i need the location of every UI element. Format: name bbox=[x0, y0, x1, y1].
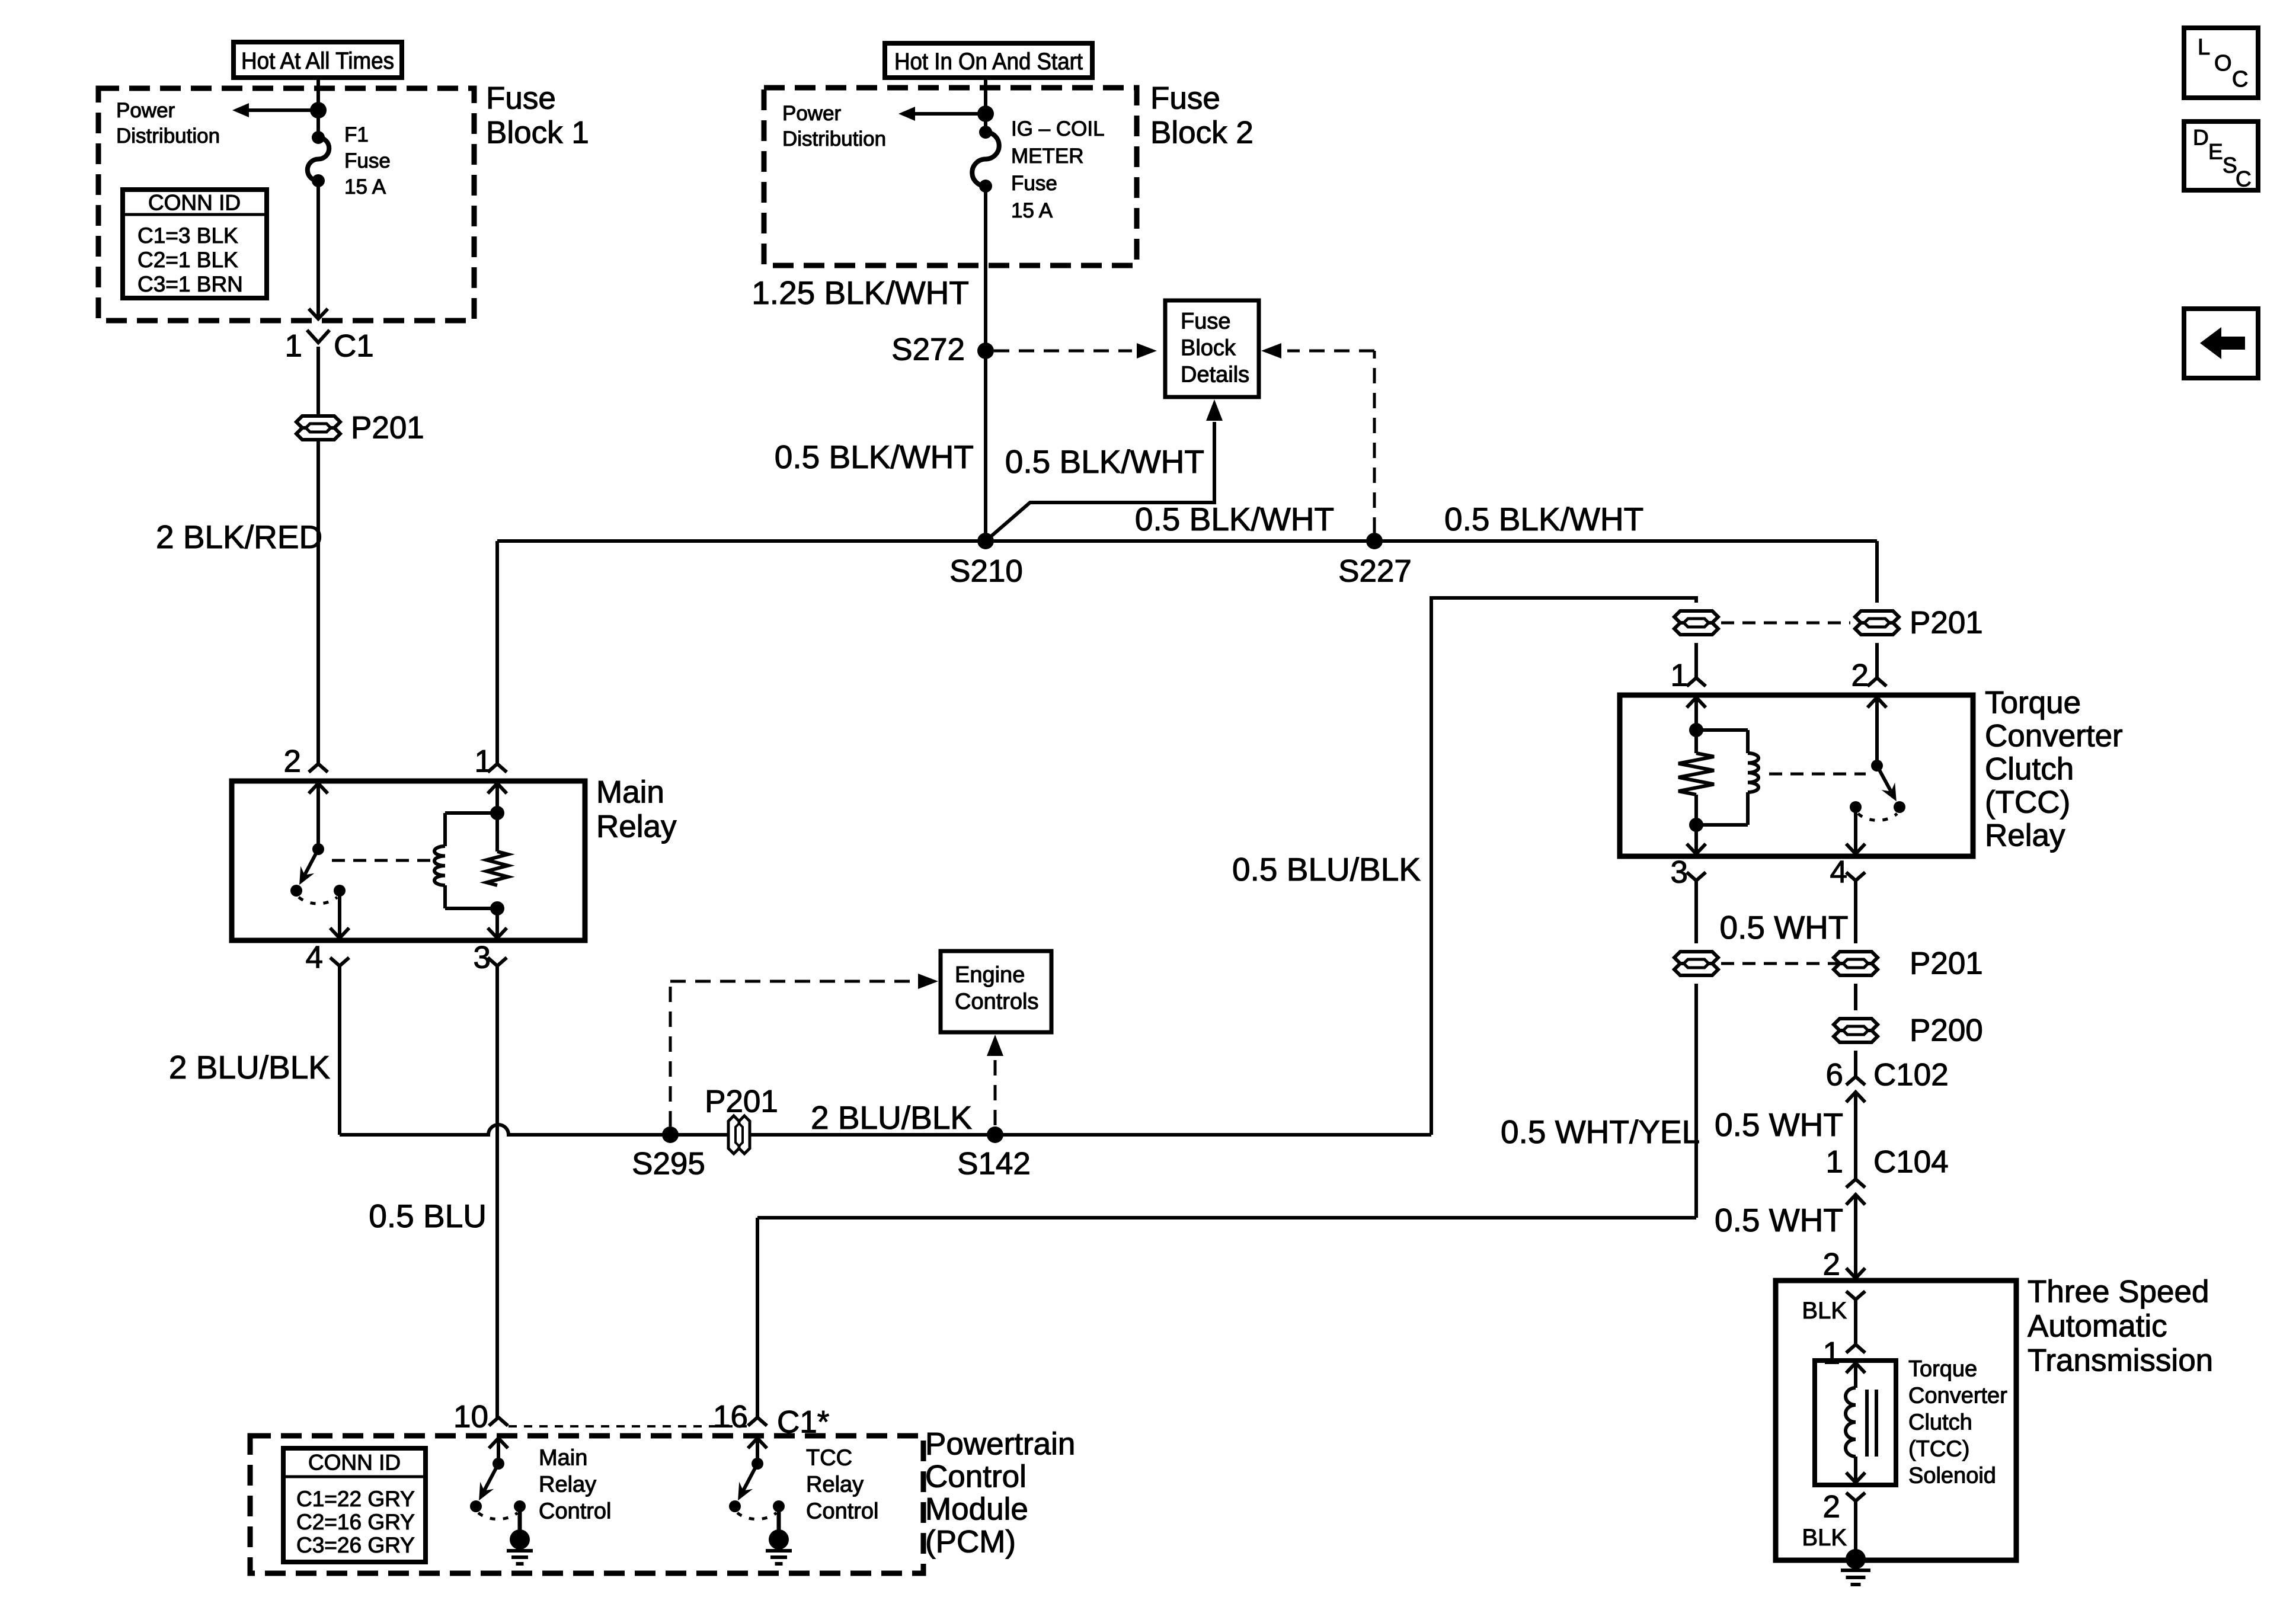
svg-text:15 A: 15 A bbox=[1011, 199, 1053, 222]
wire fuse-block-2 feed bbox=[984, 78, 987, 114]
node coil top junction (Main Relay) bbox=[490, 806, 504, 820]
svg-text:Converter: Converter bbox=[1908, 1384, 2007, 1409]
PCM TCC relay control contact bbox=[729, 1500, 741, 1512]
svg-text:P201: P201 bbox=[351, 411, 424, 446]
svg-text:3: 3 bbox=[474, 940, 491, 975]
legend box back-arrow bbox=[2184, 309, 2258, 378]
svg-text:Block 2: Block 2 bbox=[1150, 116, 1253, 151]
svg-text:S295: S295 bbox=[632, 1147, 705, 1182]
svg-text:CONN ID: CONN ID bbox=[308, 1451, 401, 1475]
resistor in Main Relay bbox=[487, 852, 508, 885]
solenoid core bars bbox=[1865, 1390, 1869, 1457]
relay box Torque Converter Clutch Relay bbox=[1620, 695, 1973, 856]
svg-text:2: 2 bbox=[1823, 1490, 1840, 1525]
main relay wire contact to pin 4 bbox=[338, 891, 341, 938]
connector P201 (TCC pin 4) bbox=[1834, 952, 1878, 964]
pin 16 of PCM bbox=[748, 1417, 767, 1426]
wire to IG-COIL METER fuse bbox=[984, 114, 987, 132]
dashed link P201 pair (bottom) bbox=[1721, 962, 1850, 965]
svg-text:METER: METER bbox=[1011, 145, 1084, 168]
svg-text:2: 2 bbox=[1823, 1247, 1840, 1282]
svg-text:O: O bbox=[2214, 51, 2232, 76]
connector P201 (TCC pin 1) bbox=[1674, 611, 1718, 623]
pin 2 of transmission (BLK) bbox=[1846, 1291, 1865, 1299]
pin 2 of TCC Relay bbox=[1868, 678, 1886, 686]
svg-text:Controls: Controls bbox=[955, 990, 1039, 1014]
svg-text:Module: Module bbox=[925, 1492, 1028, 1527]
connector P201 (TCC pin 3) bbox=[1674, 952, 1718, 964]
svg-text:Powertrain: Powertrain bbox=[925, 1427, 1075, 1462]
pin 3 of Main Relay bbox=[488, 958, 507, 966]
TCC relay switch arm bbox=[1877, 766, 1894, 796]
main relay internal pin-2 arrow bbox=[309, 783, 328, 793]
svg-text:Fuse: Fuse bbox=[1150, 81, 1220, 116]
pin 1 of TCC Relay bbox=[1687, 678, 1706, 686]
PCM main relay control contact bbox=[470, 1500, 482, 1512]
wire to fuse F1 bbox=[316, 110, 320, 137]
box TCC Solenoid bbox=[1815, 1361, 1896, 1485]
svg-text:Transmission: Transmission bbox=[2028, 1343, 2213, 1378]
svg-text:Control: Control bbox=[539, 1499, 612, 1524]
PCM main relay control ground contact bbox=[514, 1500, 526, 1512]
svg-text:1: 1 bbox=[475, 744, 492, 779]
svg-text:P201: P201 bbox=[1910, 946, 1983, 981]
wire P200 to C102 bbox=[1854, 1051, 1857, 1077]
node coil top junction (TCC Relay) bbox=[1689, 723, 1703, 737]
svg-text:S: S bbox=[2223, 153, 2237, 178]
svg-text:Torque: Torque bbox=[1908, 1357, 1977, 1382]
wire fuse-block-1 feed bbox=[316, 78, 320, 110]
wire S210 to Fuse Block Details (0.5 BLK/WHT) bbox=[986, 422, 1214, 541]
svg-text:Automatic: Automatic bbox=[2028, 1309, 2167, 1344]
wire to pin 3 (TCC Relay) bbox=[1694, 825, 1698, 854]
wire bus to TCC relay pin 2 bbox=[1875, 541, 1879, 603]
wire coil branch top (Main Relay) bbox=[445, 811, 497, 815]
fuse IG - COIL METER 15 A bbox=[979, 126, 992, 139]
PCM TCC relay control ground contact bbox=[773, 1500, 785, 1512]
svg-text:0.5 BLU: 0.5 BLU bbox=[369, 1198, 487, 1234]
svg-text:(PCM): (PCM) bbox=[925, 1525, 1016, 1560]
TCC relay internal pin-2 arrow bbox=[1868, 697, 1886, 708]
connector P200 bbox=[1834, 1019, 1878, 1030]
pin 4 of TCC Relay bbox=[1846, 872, 1865, 881]
svg-text:1: 1 bbox=[285, 329, 302, 364]
node S142 bbox=[987, 1126, 1003, 1143]
svg-text:Main: Main bbox=[539, 1446, 587, 1471]
node S210 bbox=[977, 533, 994, 549]
svg-text:Fuse: Fuse bbox=[1181, 309, 1230, 334]
svg-text:0.5 WHT: 0.5 WHT bbox=[1715, 1202, 1843, 1238]
connector C104 pin 1 bbox=[1846, 1179, 1865, 1188]
TCC relay internal pin-1 arrow bbox=[1687, 697, 1706, 708]
svg-text:S272: S272 bbox=[891, 332, 965, 367]
svg-text:C: C bbox=[2232, 67, 2248, 92]
node power-distribution tap (Fuse Block 1) bbox=[310, 102, 327, 119]
svg-text:CONN ID: CONN ID bbox=[148, 191, 241, 215]
svg-text:TCC: TCC bbox=[806, 1446, 852, 1471]
wire coil branch bottom (TCC Relay) bbox=[1746, 792, 1750, 825]
coil of TCC Relay bbox=[1748, 753, 1758, 792]
main relay switch contact (open) bbox=[290, 885, 302, 897]
node coil bottom junction (Main Relay) bbox=[490, 901, 504, 916]
svg-text:F1: F1 bbox=[344, 123, 369, 146]
wire power distribution arrow (Fuse Block 1) bbox=[248, 108, 318, 112]
solenoid internal wire with arrows bbox=[1846, 1363, 1865, 1373]
svg-text:(TCC): (TCC) bbox=[1908, 1437, 1969, 1462]
svg-text:0.5 BLK/WHT: 0.5 BLK/WHT bbox=[1135, 501, 1334, 537]
svg-text:P200: P200 bbox=[1910, 1013, 1983, 1048]
dashed box Fuse Block 1 bbox=[98, 88, 474, 321]
svg-text:C102: C102 bbox=[1873, 1058, 1949, 1093]
wire fuse to S272 - 1.25 BLK/WHT bbox=[984, 186, 987, 541]
dashed link coil to switch (TCC Relay) bbox=[1769, 773, 1866, 776]
dashed link pin10 to pin16 (connector C1*) bbox=[509, 1425, 747, 1427]
box Fuse Block Details bbox=[1165, 300, 1259, 397]
svg-text:1: 1 bbox=[1823, 1336, 1840, 1371]
svg-text:0.5 BLU/BLK: 0.5 BLU/BLK bbox=[1232, 851, 1421, 888]
pin 1 of TCC solenoid bbox=[1846, 1345, 1865, 1353]
svg-text:P201: P201 bbox=[705, 1084, 778, 1119]
ground node (main relay control) bbox=[510, 1529, 530, 1550]
main relay switch common contact bbox=[334, 885, 346, 897]
svg-text:3: 3 bbox=[1671, 855, 1688, 890]
svg-text:Relay: Relay bbox=[596, 809, 677, 844]
svg-text:Converter: Converter bbox=[1985, 719, 2123, 754]
wire 2 BLU/BLK horizontal run with hop over 0.5 BLU wire bbox=[340, 1125, 670, 1135]
pin 2 of Main Relay bbox=[309, 764, 328, 772]
svg-text:Fuse: Fuse bbox=[1011, 172, 1057, 195]
ground node (TCC relay control) bbox=[769, 1529, 789, 1550]
svg-text:Details: Details bbox=[1181, 363, 1249, 388]
PCM TCC relay control switch arrow bbox=[748, 1438, 767, 1448]
svg-text:Torque: Torque bbox=[1985, 686, 2081, 721]
svg-text:C3=26 GRY: C3=26 GRY bbox=[296, 1533, 415, 1557]
wire coil branch top (TCC Relay) bbox=[1696, 728, 1748, 732]
svg-text:0.5 BLK/WHT: 0.5 BLK/WHT bbox=[1444, 501, 1643, 537]
svg-text:BLK: BLK bbox=[1802, 1525, 1847, 1551]
wire main 0.5 BLK/WHT bus bbox=[497, 539, 1877, 543]
coil of TCC solenoid bbox=[1846, 1388, 1856, 1457]
legend box DESC bbox=[2184, 121, 2258, 190]
main relay switch travel arc (dashed) bbox=[299, 897, 337, 904]
svg-text:10: 10 bbox=[453, 1400, 488, 1435]
node power-distribution tap (Fuse Block 2) bbox=[977, 105, 994, 122]
resistor in TCC Relay bbox=[1694, 730, 1698, 753]
svg-text:Relay: Relay bbox=[806, 1473, 864, 1497]
svg-text:2: 2 bbox=[1851, 658, 1869, 693]
svg-text:Distribution: Distribution bbox=[116, 124, 220, 148]
wire transmission pin to solenoid pin 1 bbox=[1854, 1299, 1857, 1345]
wire P201 to Main Relay pin 2 - 2 BLK/RED bbox=[316, 441, 320, 764]
ground symbol (transmission) bbox=[1841, 1569, 1870, 1572]
svg-text:C1: C1 bbox=[334, 329, 374, 364]
svg-text:D: D bbox=[2193, 126, 2209, 150]
svg-text:Distribution: Distribution bbox=[782, 127, 886, 151]
wire C1 to P201 bbox=[316, 347, 320, 415]
svg-text:Engine: Engine bbox=[955, 963, 1025, 988]
svg-text:Power: Power bbox=[782, 102, 842, 125]
svg-text:C3=1 BRN: C3=1 BRN bbox=[137, 272, 243, 296]
coil of Main Relay bbox=[434, 846, 445, 885]
PCM main relay control arm bbox=[481, 1464, 498, 1496]
dashed wire S227 to Fuse Block Details bbox=[1373, 351, 1376, 533]
TCC relay switch contact to pin 4 bbox=[1850, 801, 1862, 813]
main relay internal pin-1 arrow bbox=[488, 783, 507, 793]
svg-text:BLK: BLK bbox=[1802, 1298, 1847, 1324]
PCM TCC relay control arm bbox=[740, 1464, 757, 1496]
pin 2 of TCC solenoid bbox=[1846, 1493, 1865, 1501]
node S227 bbox=[1366, 533, 1383, 549]
svg-text:1: 1 bbox=[1671, 658, 1688, 693]
svg-text:S142: S142 bbox=[957, 1147, 1031, 1182]
svg-text:Block: Block bbox=[1181, 336, 1236, 361]
table CONN ID (PCM) bbox=[283, 1448, 426, 1562]
ground symbol (TCC relay control) bbox=[766, 1549, 792, 1553]
connector P201 (TCC pin 2) bbox=[1855, 611, 1899, 623]
wire F1 to connector C1 bbox=[316, 181, 320, 319]
TCC relay switch common contact bbox=[1894, 801, 1905, 813]
wire Main Relay pin 1 riser bbox=[495, 541, 499, 764]
connector P201 (in-line, 2 BLU/BLK run) bbox=[728, 1116, 739, 1154]
svg-text:Relay: Relay bbox=[539, 1473, 596, 1497]
wire TCC pin 3 down - 0.5 WHT bbox=[1694, 881, 1698, 943]
fuse F1 15 A bbox=[312, 131, 325, 144]
svg-text:S227: S227 bbox=[1338, 554, 1412, 589]
table CONN ID (Fuse Block 1) bbox=[123, 190, 267, 298]
svg-text:6: 6 bbox=[1826, 1058, 1843, 1093]
svg-text:Relay: Relay bbox=[1985, 818, 2065, 853]
PCM TCC relay control pivot bbox=[752, 1458, 763, 1470]
TCC relay switch pivot bbox=[1871, 760, 1883, 772]
wire power distribution arrow (Fuse Block 2) bbox=[914, 112, 986, 116]
box Engine Controls bbox=[941, 951, 1051, 1032]
svg-text:P201: P201 bbox=[1910, 606, 1983, 641]
dashed link coil to switch (Main Relay) bbox=[332, 859, 436, 862]
svg-text:Clutch: Clutch bbox=[1908, 1410, 1972, 1435]
PCM TCC relay control travel arc bbox=[737, 1513, 776, 1519]
TCC relay switch travel arc (dashed) bbox=[1858, 814, 1897, 820]
svg-text:2 BLU/BLK: 2 BLU/BLK bbox=[169, 1049, 330, 1086]
svg-text:C1=3 BLK: C1=3 BLK bbox=[137, 223, 238, 248]
wire Main Relay pin 3 down - 0.5 BLU bbox=[495, 966, 499, 1417]
svg-text:E: E bbox=[2208, 140, 2223, 164]
svg-text:Fuse: Fuse bbox=[344, 149, 391, 172]
svg-text:Power: Power bbox=[116, 99, 175, 122]
svg-text:C2=16 GRY: C2=16 GRY bbox=[296, 1510, 415, 1534]
svg-text:Main: Main bbox=[596, 775, 664, 810]
wire P201 to P200 bbox=[1854, 984, 1857, 1010]
svg-text:C: C bbox=[2236, 167, 2252, 191]
node S295 bbox=[662, 1126, 679, 1143]
svg-text:C2=1 BLK: C2=1 BLK bbox=[137, 248, 238, 272]
relay box Main Relay bbox=[232, 781, 585, 940]
wire P201 to horizontal run (pin 3) bbox=[1694, 984, 1698, 1218]
wire 0.5 BLU/BLK riser to TCC pin 1 bbox=[1431, 598, 1696, 1135]
svg-text:1: 1 bbox=[1826, 1145, 1843, 1180]
wire 0.5 WHT/YEL horizontal run to PCM pin 16 bbox=[757, 1216, 1696, 1219]
svg-text:Hot At All Times: Hot At All Times bbox=[241, 48, 394, 74]
svg-text:Three Speed: Three Speed bbox=[2028, 1275, 2209, 1310]
svg-text:0.5 BLK/WHT: 0.5 BLK/WHT bbox=[1005, 443, 1204, 480]
ground node of transmission bbox=[1846, 1549, 1866, 1569]
dashed box Fuse Block 2 bbox=[764, 88, 1137, 265]
svg-text:Control: Control bbox=[806, 1499, 879, 1524]
dashed wire S142 up to Engine Controls bbox=[994, 1056, 997, 1125]
label box 'Hot In On And Start' bbox=[885, 43, 1092, 78]
svg-text:Control: Control bbox=[925, 1459, 1027, 1494]
dashed wire S295 to Engine Controls bbox=[669, 981, 672, 1126]
svg-text:(TCC): (TCC) bbox=[1985, 785, 2070, 820]
wire solenoid pin 2 to ground (BLK) bbox=[1854, 1501, 1857, 1559]
svg-text:0.5 BLK/WHT: 0.5 BLK/WHT bbox=[775, 438, 974, 475]
wire Main Relay pin 4 down - 2 BLU/BLK bbox=[338, 966, 341, 1135]
svg-text:16: 16 bbox=[713, 1400, 748, 1435]
svg-text:2 BLK/RED: 2 BLK/RED bbox=[156, 518, 322, 555]
node S272 bbox=[977, 343, 994, 359]
svg-text:15 A: 15 A bbox=[344, 175, 386, 199]
dashed wire S272 to Fuse Block Details bbox=[994, 350, 1132, 353]
pin 4 of Main Relay bbox=[330, 958, 349, 966]
pin 1 of Main Relay bbox=[488, 764, 507, 772]
connector C102 pin 6 bbox=[1846, 1077, 1865, 1085]
wire TCC pin 4 down - 0.5 WHT bbox=[1854, 881, 1857, 943]
pin 1 of connector C1 (fuse block 1 output) bbox=[307, 330, 330, 343]
svg-text:C104: C104 bbox=[1873, 1145, 1949, 1180]
pin 3 of TCC Relay bbox=[1687, 872, 1706, 881]
PCM main relay control travel arc bbox=[478, 1513, 517, 1519]
svg-text:Solenoid: Solenoid bbox=[1908, 1464, 1996, 1489]
svg-text:1.25 BLK/WHT: 1.25 BLK/WHT bbox=[752, 274, 969, 311]
svg-text:Hot In On And Start: Hot In On And Start bbox=[894, 49, 1083, 75]
svg-text:IG – COIL: IG – COIL bbox=[1011, 117, 1105, 140]
wire resistor to pin 3 (Main Relay) bbox=[495, 908, 499, 938]
svg-text:L: L bbox=[2198, 35, 2210, 60]
ground symbol (main relay control) bbox=[507, 1549, 533, 1553]
svg-text:4: 4 bbox=[306, 940, 323, 975]
svg-text:4: 4 bbox=[1830, 855, 1847, 890]
legend box LOC bbox=[2184, 28, 2258, 98]
label box 'Hot At All Times' bbox=[234, 42, 402, 78]
PCM main relay control pivot bbox=[493, 1458, 504, 1470]
box Three Speed Automatic Transmission bbox=[1776, 1281, 2016, 1560]
wire P201 to TCC pin 2 bbox=[1875, 643, 1879, 678]
main relay switch arm bbox=[302, 849, 318, 880]
svg-text:Block 1: Block 1 bbox=[486, 116, 589, 151]
svg-text:2 BLU/BLK: 2 BLU/BLK bbox=[811, 1099, 972, 1136]
main relay switch pivot bbox=[312, 843, 324, 855]
svg-text:Fuse: Fuse bbox=[486, 81, 556, 116]
dashed link P201 pair (top) bbox=[1721, 622, 1850, 625]
svg-text:0.5 WHT/YEL: 0.5 WHT/YEL bbox=[1501, 1113, 1700, 1150]
svg-text:2: 2 bbox=[284, 744, 301, 779]
connector P201 (left column) bbox=[296, 416, 340, 428]
dashed box Powertrain Control Module (PCM) bbox=[250, 1436, 923, 1573]
PCM main relay control switch arrow bbox=[489, 1438, 508, 1448]
svg-text:S210: S210 bbox=[949, 554, 1023, 589]
node coil bottom junction (TCC Relay) bbox=[1689, 818, 1703, 832]
svg-text:C1=22 GRY: C1=22 GRY bbox=[296, 1487, 415, 1511]
wire C104 to transmission pin 2 - 0.5 WHT bbox=[1854, 1195, 1857, 1278]
svg-text:0.5 WHT: 0.5 WHT bbox=[1715, 1106, 1843, 1143]
wire C102 to C104 - 0.5 WHT bbox=[1854, 1092, 1857, 1179]
wire P201 to TCC pin 1 bbox=[1694, 643, 1698, 678]
svg-text:Clutch: Clutch bbox=[1985, 752, 2074, 787]
svg-text:0.5 WHT: 0.5 WHT bbox=[1720, 909, 1849, 946]
wire coil branch bottom (Main Relay) bbox=[443, 885, 447, 908]
